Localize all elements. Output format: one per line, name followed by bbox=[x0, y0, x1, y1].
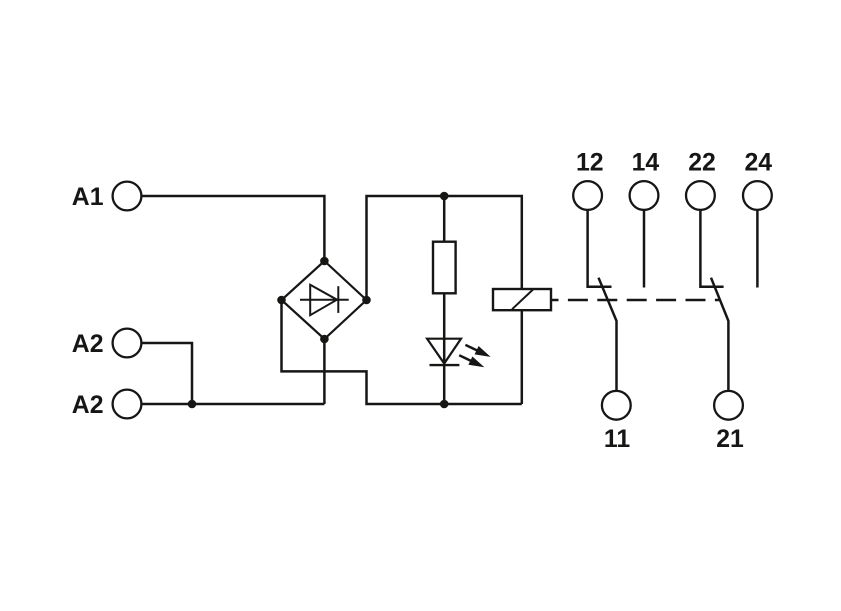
contact 11 mover bbox=[599, 278, 617, 391]
wire coil bottom to rail bbox=[521, 310, 524, 404]
contact 12 fixed bbox=[588, 210, 612, 287]
mechanical link dashed bbox=[551, 299, 719, 302]
terminal 14 bbox=[630, 181, 659, 210]
terminal A1 bbox=[113, 182, 142, 211]
svg-text:11: 11 bbox=[604, 426, 630, 453]
wire A2 upper to junction bbox=[141, 343, 192, 404]
junction A2 rail bbox=[188, 400, 197, 409]
resistor R bbox=[433, 242, 456, 294]
svg-text:21: 21 bbox=[716, 426, 744, 453]
svg-text:A1: A1 bbox=[72, 184, 104, 211]
wire resistor through LED to bottom rail bbox=[443, 293, 446, 404]
relay coil diagonal bbox=[512, 290, 533, 310]
contact 22 fixed bbox=[700, 210, 723, 287]
node bridge left bbox=[277, 296, 286, 305]
svg-text:A2: A2 bbox=[72, 392, 104, 419]
terminal 12 bbox=[573, 181, 602, 210]
diode inside bridge bbox=[300, 285, 349, 315]
node bridge top bbox=[320, 257, 329, 266]
wire bridge right (DC plus) top rail to coil bbox=[367, 196, 522, 300]
wire bridge left (DC minus) to bottom rail bbox=[282, 300, 522, 404]
terminal A2 (upper) bbox=[113, 329, 142, 358]
svg-text:24: 24 bbox=[745, 149, 773, 176]
junction LED bottom rail bbox=[440, 400, 449, 409]
wire A1 to bridge top bbox=[141, 196, 324, 262]
contact 24 fixed bbox=[756, 210, 759, 288]
contact 21 mover bbox=[711, 278, 728, 391]
contact 14 fixed bbox=[643, 210, 646, 288]
terminal 22 bbox=[686, 181, 715, 210]
node bridge right bbox=[362, 296, 371, 305]
svg-text:22: 22 bbox=[688, 149, 716, 176]
LED triangle bbox=[427, 339, 461, 364]
svg-text:14: 14 bbox=[632, 149, 660, 176]
terminal 24 bbox=[743, 181, 772, 210]
svg-text:12: 12 bbox=[576, 149, 604, 176]
LED arrow 2 bbox=[459, 355, 484, 367]
bridge rectifier diamond bbox=[282, 261, 367, 339]
wire top rail to resistor bbox=[443, 196, 446, 242]
node bridge bottom bbox=[320, 335, 329, 344]
junction resistor top bbox=[440, 192, 449, 201]
terminal 11 bbox=[602, 391, 631, 420]
wire bridge bottom to A2 rail bbox=[323, 339, 326, 404]
LED arrow 1 bbox=[465, 345, 490, 357]
terminal A2 (lower) bbox=[113, 390, 142, 419]
wire A2 lower rail bbox=[141, 403, 324, 406]
LED cathode bar bbox=[430, 364, 460, 366]
relay coil K bbox=[493, 289, 551, 310]
terminal 21 bbox=[714, 391, 743, 420]
svg-text:A2: A2 bbox=[72, 331, 104, 358]
